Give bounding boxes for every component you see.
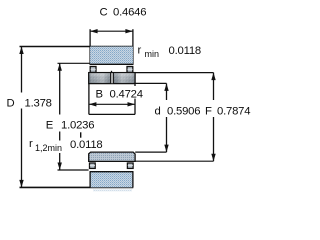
svg-text:F: F	[205, 105, 212, 117]
dimension E vertical line lower segment	[59, 132, 61, 171]
svg-text:1,2min: 1,2min	[35, 143, 62, 153]
svg-text:B: B	[96, 88, 104, 100]
cage box top-right	[127, 67, 133, 73]
svg-text:0.4724: 0.4724	[110, 88, 143, 100]
arrow F down	[211, 154, 215, 162]
wire: d top extension line y=83.0	[134, 82, 167, 84]
arrow E up	[58, 63, 62, 71]
svg-text:r: r	[29, 138, 33, 150]
dimension C line y=31.2	[90, 30, 133, 32]
C extension line right x=132.9	[132, 29, 134, 64]
svg-text:E: E	[46, 119, 54, 131]
label r_1,2min 0.0118	[33, 141, 62, 154]
arrow d down	[164, 145, 168, 153]
inner ring bar bottom half	[89, 152, 135, 161]
wire: F bottom extension line y=160.9	[135, 160, 213, 162]
svg-text:0.0118: 0.0118	[70, 139, 103, 151]
arrow D down	[19, 180, 23, 188]
dimension B line y=104.3	[89, 103, 135, 105]
wire: B bottom connecting line y=114.4	[89, 113, 135, 115]
outer block bottom half	[90, 172, 134, 188]
arrow E down	[58, 163, 62, 171]
arrow D up	[19, 47, 23, 55]
dimension D vertical line lower segment	[21, 109, 23, 188]
svg-text:0.4646: 0.4646	[113, 6, 146, 18]
dimension d vertical upper segment	[166, 83, 168, 100]
split gap in top bar	[111, 73, 113, 83]
dimension B right extension x=135.0	[134, 84, 136, 115]
arrow C left	[90, 29, 98, 33]
dimension B left extension x=88.9	[88, 84, 90, 115]
svg-text:0.0118: 0.0118	[169, 45, 202, 57]
arrow B left	[89, 102, 97, 106]
svg-text:1.0236: 1.0236	[61, 119, 94, 131]
svg-text:r: r	[138, 45, 142, 57]
C extension line left (block side extended) x=90.1	[89, 29, 91, 64]
wire: d bottom extension line y=151.9	[135, 151, 166, 153]
svg-text:min: min	[145, 49, 160, 59]
dimension F vertical upper segment	[213, 73, 215, 100]
dimension F vertical lower segment	[213, 117, 215, 161]
arrow C right	[125, 29, 132, 33]
svg-text:0.5906: 0.5906	[167, 105, 200, 117]
wire: F top extension line y=72.6	[135, 72, 213, 74]
dimension D vertical line upper segment	[21, 47, 23, 93]
arrow d up	[164, 83, 168, 91]
wire: E top extension line y=63.3	[58, 62, 90, 64]
cage band mid line top	[111, 71, 113, 73]
arrow F up	[211, 73, 215, 81]
wire: D bottom extension line y=187.4	[20, 186, 134, 188]
cage box top-left	[90, 67, 96, 73]
svg-text:D: D	[7, 97, 15, 109]
cage box bottom-left	[90, 163, 96, 168]
svg-text:0.7874: 0.7874	[217, 105, 250, 117]
svg-text:C: C	[100, 6, 108, 18]
wire: D top extension line y=46.5	[20, 46, 134, 48]
svg-text:1.378: 1.378	[25, 97, 52, 109]
wire: E bottom extension line y=170.0	[58, 169, 89, 171]
dimension d vertical lower segment	[166, 117, 168, 152]
svg-text:d: d	[155, 105, 161, 117]
inner ring bar top half (grey)	[89, 73, 135, 84]
shadow under bottom block	[93, 189, 132, 191]
outer block top half (outer ring + rollers)	[90, 47, 133, 65]
stray tick near r12min label	[80, 132, 82, 137]
cage box bottom-right	[127, 163, 133, 168]
label B 0.4724	[92, 86, 145, 99]
dimension E vertical line upper segment	[59, 63, 61, 114]
arrow B right	[128, 102, 136, 106]
wire: block1 bottom edge	[90, 63, 134, 65]
